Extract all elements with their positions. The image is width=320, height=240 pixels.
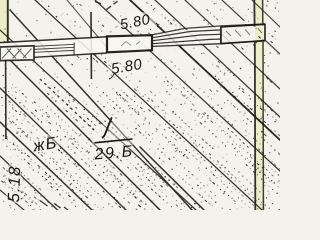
- central rectangle (structure): [107, 35, 152, 52]
- fraction numerator 1: [103, 118, 112, 138]
- right strip right edge line: [262, 0, 265, 210]
- solid diagonal hatch lines: [0, 0, 280, 210]
- yellow highlight strip left (top): [0, 0, 7, 47]
- yellow highlight strip right: [255, 0, 263, 210]
- left block X hatch: [2, 49, 32, 59]
- band inner lines right segment: [153, 30, 222, 44]
- mid vertical survey line: [90, 12, 92, 79]
- bottom edge squiggle: [40, 201, 68, 211]
- central rectangle inner marks: [121, 42, 140, 47]
- band bottom line left: [34, 53, 107, 57]
- comma after 5.80 top: [156, 23, 158, 27]
- scan noise specks: [5, 0, 281, 211]
- counter-hatch dashes: [15, 100, 178, 196]
- left vertical line below band: [5, 59, 7, 139]
- long right rectangle (crosses strip): [221, 24, 265, 43]
- band top line left: [0, 37, 107, 43]
- svg-text:5.18: 5.18: [5, 165, 24, 203]
- band top line right segment: [153, 24, 266, 35]
- dashed hatch line: [40, 79, 95, 131]
- long rectangle inner dashes: [226, 29, 262, 37]
- band inner longitudinal lines: [34, 44, 74, 52]
- dotted hatch texture: [1, 1, 281, 212]
- flourish of bottom 5: [109, 74, 114, 79]
- band fill right bundle: [152, 26, 221, 47]
- band fill left: [0, 37, 107, 60]
- svg-text:29.Б: 29.Б: [93, 143, 134, 163]
- band divider x=74: [73, 43, 75, 56]
- fraction bar: [95, 139, 133, 143]
- top edge dash marks: [95, 1, 118, 9]
- left vertical line above band: [7, 0, 9, 44]
- band divider x=221: [220, 26, 222, 44]
- paper background: [0, 0, 280, 210]
- left hatched block: [0, 46, 34, 61]
- clean paper patches under labels: [4, 12, 160, 204]
- long rectangle interior whitening (left of strip): [221, 25, 254, 44]
- right strip left edge line: [254, 0, 255, 210]
- band bottom line right segment: [153, 41, 266, 47]
